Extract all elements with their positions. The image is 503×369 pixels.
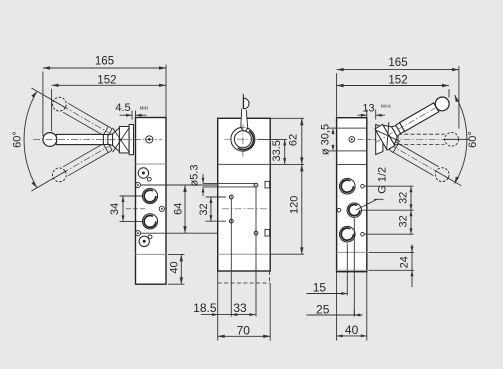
middle view hidden base dashed <box>218 271 270 283</box>
dim 15 right view <box>307 281 348 296</box>
dim 62 middle view <box>287 118 303 164</box>
svg-text:13: 13 <box>362 102 374 114</box>
right body centerline <box>358 138 379 140</box>
dim 32 upper right view <box>398 186 413 210</box>
svg-text:24: 24 <box>398 256 410 268</box>
middle lever hub crescent <box>238 127 254 150</box>
right small hole b <box>337 208 341 212</box>
middle lever hub inner <box>234 131 251 148</box>
right extension verticals bottom <box>337 219 367 341</box>
right port 1 <box>340 178 356 194</box>
svg-text:33.5: 33.5 <box>271 140 283 161</box>
middle view right edge tab upper <box>265 181 270 188</box>
left view body divider line upper <box>136 163 167 165</box>
svg-text:15: 15 <box>313 281 327 295</box>
svg-text:ø5.3: ø5.3 <box>189 164 201 186</box>
svg-text:34: 34 <box>109 203 121 215</box>
left body pilot mark <box>146 136 153 143</box>
dim 152 left view <box>52 74 166 131</box>
right lever solid (up position) <box>370 90 455 153</box>
middle lever crosshair <box>225 125 262 158</box>
svg-text:165: 165 <box>95 56 114 68</box>
dim 32 lower right view <box>398 210 413 234</box>
left lever pivot block <box>119 127 129 153</box>
svg-text:152: 152 <box>388 74 407 86</box>
middle lever pin rod <box>242 94 244 112</box>
right dim extension lines 32 32 <box>362 186 414 234</box>
svg-text:70: 70 <box>237 324 251 338</box>
right port 2 <box>347 203 361 217</box>
dim 32 middle view <box>198 197 226 221</box>
right view bottom cap lines <box>337 252 367 270</box>
right small hole c <box>361 232 365 236</box>
left lever solid shaft <box>56 134 103 144</box>
svg-text:4.5: 4.5 <box>115 102 130 114</box>
left body pilot mark dot <box>148 138 151 141</box>
svg-text:G 1/2: G 1/2 <box>376 167 388 194</box>
dim 40 left view <box>168 254 185 284</box>
middle lever ball half-disc <box>244 98 249 109</box>
svg-text:MIN: MIN <box>140 105 148 110</box>
left lever centerline <box>33 139 162 141</box>
right view boss lines (dia 30.5) <box>337 128 367 151</box>
dim 25 right view <box>307 303 363 317</box>
left port bottom small <box>139 235 152 247</box>
svg-text:25: 25 <box>316 303 330 317</box>
dim 64 left view <box>141 185 218 233</box>
svg-text:ø 30,5: ø 30,5 <box>320 124 332 155</box>
right mount flange <box>376 125 383 155</box>
middle hole upper left <box>229 195 233 199</box>
right body pilot mark <box>349 137 355 143</box>
svg-text:165: 165 <box>388 57 407 69</box>
middle lever hub outer <box>231 127 255 151</box>
G 1/2 label <box>356 167 388 210</box>
dim 34 left view <box>109 196 146 221</box>
left small ring lower <box>135 231 140 236</box>
svg-text:MAX: MAX <box>381 104 391 109</box>
middle view divider upper <box>218 163 271 165</box>
left port large 1 <box>142 188 157 203</box>
right body pilot mark dot <box>351 138 353 140</box>
svg-text:32: 32 <box>398 192 410 204</box>
left lever small cone <box>108 134 113 146</box>
left small ring upper <box>135 182 140 187</box>
middle hole top right <box>254 183 258 187</box>
svg-text:62: 62 <box>287 134 299 146</box>
dim 120 middle view <box>288 164 303 254</box>
dim 152 right view <box>337 74 449 97</box>
dim dia 5.3 middle view <box>189 164 257 196</box>
left port large 2 <box>142 214 157 229</box>
left port top small <box>138 168 151 181</box>
left lever phantom lower position <box>28 139 115 197</box>
left lever ball (solid) <box>43 133 57 147</box>
right small hole a <box>361 184 365 188</box>
dim 165 right view <box>337 57 459 129</box>
left view body divider line lower <box>136 253 167 255</box>
right view body outline <box>337 118 367 272</box>
middle hole lower left <box>229 219 233 223</box>
svg-text:40: 40 <box>345 323 359 337</box>
middle extension verticals <box>218 187 271 340</box>
dim 24 right view <box>369 245 415 288</box>
right view divider <box>337 164 367 166</box>
middle ports centerline <box>222 208 267 210</box>
right 60 degree swing arc <box>455 95 467 184</box>
left lever cone <box>113 128 120 152</box>
left 60 degree swing arc <box>24 91 37 188</box>
middle view body outline <box>218 118 271 271</box>
svg-text:152: 152 <box>97 74 116 86</box>
dim 4.5 MIN left view <box>115 102 148 120</box>
left pivot cross <box>113 128 130 152</box>
middle view right edge tab lower <box>265 229 270 236</box>
right lever phantom lower position <box>386 138 465 191</box>
svg-text:32: 32 <box>198 203 210 215</box>
right lever phantom horizontal <box>391 132 469 146</box>
svg-text:60°: 60° <box>467 131 479 148</box>
middle lever shaft <box>241 109 248 129</box>
dim 70 middle view <box>218 324 271 339</box>
left mount flange <box>129 125 133 155</box>
dim 165 left view <box>43 56 166 137</box>
dim 40 right view <box>337 323 367 337</box>
dim dia 30.5 right view <box>320 124 337 155</box>
svg-text:64: 64 <box>172 203 184 215</box>
svg-text:60°: 60° <box>12 131 24 148</box>
left lever nut <box>103 135 108 145</box>
svg-text:32: 32 <box>398 215 410 227</box>
svg-text:40: 40 <box>168 261 180 273</box>
dim 13 MAX right view <box>358 102 391 119</box>
svg-text:120: 120 <box>288 196 300 214</box>
middle view divider lower gray <box>218 253 271 255</box>
left view body outline <box>136 118 167 285</box>
dim 18.5 and 33 middle view <box>193 301 255 316</box>
svg-text:33: 33 <box>233 301 247 315</box>
right port 3 <box>340 226 356 242</box>
dim 33.5 middle view <box>258 139 288 164</box>
middle hole bottom right <box>254 231 258 235</box>
svg-text:18.5: 18.5 <box>193 301 217 315</box>
dim 62 and 120 extension lines <box>270 118 304 254</box>
left lever phantom upper position <box>28 82 115 140</box>
left side port mid <box>159 206 164 211</box>
